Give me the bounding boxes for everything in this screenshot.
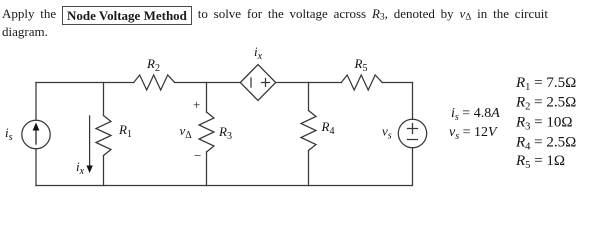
svg-text:+: + bbox=[193, 97, 200, 112]
wire top rail left bbox=[36, 82, 134, 84]
label R3 value bbox=[515, 115, 573, 133]
label R4 bbox=[321, 119, 335, 137]
label R2 bbox=[146, 56, 160, 74]
resistor R5 bbox=[341, 75, 382, 90]
label R4 value bbox=[515, 135, 576, 153]
label minus R3 bbox=[194, 148, 201, 163]
wire R3 branch top bbox=[206, 83, 208, 113]
svg-text:R3: R3 bbox=[218, 124, 232, 142]
wire top rail mid bbox=[175, 82, 241, 84]
svg-text:vΔ: vΔ bbox=[180, 123, 193, 141]
label R1 bbox=[118, 122, 132, 140]
svg-text:R4: R4 bbox=[321, 119, 335, 137]
label is value bbox=[451, 106, 500, 123]
svg-text:−: − bbox=[194, 148, 201, 163]
resistor R2 bbox=[134, 75, 175, 90]
svg-text:R2 = 2.5Ω: R2 = 2.5Ω bbox=[515, 95, 576, 113]
resistor R4 bbox=[301, 111, 316, 151]
current arrow ix bbox=[86, 116, 92, 173]
label vs bbox=[382, 124, 392, 142]
wire R1 branch top bbox=[103, 83, 105, 116]
label is bbox=[5, 125, 13, 143]
wire R1 branch bottom bbox=[103, 156, 105, 186]
wire right branch top bbox=[412, 83, 414, 120]
wire left branch bottom bbox=[35, 149, 37, 186]
svg-text:ix: ix bbox=[254, 44, 263, 62]
label ix at arrow bbox=[76, 159, 85, 177]
svg-text:R2: R2 bbox=[146, 56, 160, 74]
svg-text:is = 4.8A: is = 4.8A bbox=[451, 106, 500, 123]
label R1 value bbox=[515, 75, 576, 93]
label R3 bbox=[218, 124, 232, 142]
wire R4 branch bottom bbox=[308, 151, 310, 186]
label R5 bbox=[354, 56, 368, 74]
svg-text:R3 = 10Ω: R3 = 10Ω bbox=[515, 115, 573, 133]
wire top rail right of diamond bbox=[276, 82, 342, 84]
wire top rail to right corner bbox=[382, 82, 412, 84]
resistor R3 bbox=[199, 112, 214, 152]
wire bottom rail bbox=[36, 185, 413, 187]
svg-text:R1: R1 bbox=[118, 122, 132, 140]
svg-text:ix: ix bbox=[76, 159, 85, 177]
wire left branch top bbox=[35, 83, 37, 121]
label plus R3 bbox=[193, 97, 200, 112]
wire right branch bottom bbox=[412, 148, 414, 186]
label ix above diamond bbox=[254, 44, 263, 62]
current source is bbox=[22, 120, 50, 148]
svg-text:vs = 12V: vs = 12V bbox=[449, 125, 498, 142]
label vdelta bbox=[180, 123, 193, 141]
svg-text:vs: vs bbox=[382, 124, 392, 142]
svg-text:R5: R5 bbox=[354, 56, 368, 74]
label R2 value bbox=[515, 95, 576, 113]
svg-text:R5 = 1Ω: R5 = 1Ω bbox=[515, 153, 565, 171]
resistor R1 bbox=[96, 116, 111, 156]
label R5 value bbox=[515, 153, 565, 171]
svg-text:is: is bbox=[5, 125, 13, 143]
svg-text:R1 = 7.5Ω: R1 = 7.5Ω bbox=[515, 75, 576, 93]
wire R3 branch bottom bbox=[206, 152, 208, 186]
dependent source D1 bbox=[240, 65, 275, 101]
svg-text:R4 = 2.5Ω: R4 = 2.5Ω bbox=[515, 135, 576, 153]
voltage source vs bbox=[398, 119, 426, 147]
wire R4 branch top bbox=[308, 83, 310, 111]
label vs value bbox=[449, 125, 498, 142]
